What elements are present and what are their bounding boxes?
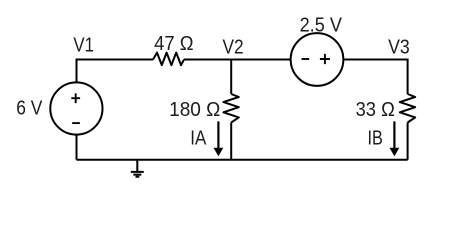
2.5V source plus sign: [320, 54, 330, 64]
svg-text:6 V: 6 V: [16, 98, 43, 120]
current arrow IA head: [214, 148, 224, 156]
svg-text:180 Ω: 180 Ω: [169, 99, 220, 121]
svg-text:V2: V2: [223, 36, 244, 58]
voltage source 2.5 V circle: [291, 33, 344, 86]
6V source plus sign: [71, 93, 80, 103]
svg-text:V3: V3: [388, 37, 410, 59]
wire top-right: 2.5V source to V3 corner and down to 33ohm: [343, 60, 407, 95]
svg-text:47 Ω: 47 Ω: [154, 33, 193, 55]
voltage source 6 V circle: [50, 82, 102, 134]
resistor 180 ohm zigzag: [223, 94, 238, 123]
wire left-bottom: 6V source to bottom rail: [76, 135, 78, 160]
current arrow IB head: [390, 148, 400, 156]
2.5V source minus sign: [302, 58, 310, 60]
6V source minus sign: [72, 122, 80, 124]
wire top-middle: 47ohm to 2.5V source: [184, 59, 291, 61]
svg-text:IB: IB: [368, 128, 383, 150]
wire bottom rail: [77, 159, 408, 161]
wire V2 branch top: [230, 60, 232, 95]
current arrow IB shaft: [393, 121, 395, 149]
svg-text:2.5 V: 2.5 V: [300, 14, 343, 36]
svg-text:IA: IA: [190, 128, 207, 150]
ground symbol: [131, 160, 144, 177]
current arrow IA shaft: [217, 121, 219, 149]
resistor 47 ohm zigzag: [153, 53, 184, 66]
svg-text:33 Ω: 33 Ω: [356, 99, 395, 121]
wire right-bottom: 33ohm down to bottom rail: [407, 123, 409, 160]
wire top-left: from 6V source top up and right to 47ohm: [77, 60, 154, 84]
resistor 33 ohm zigzag: [400, 94, 415, 123]
wire V2 branch bottom: [230, 123, 232, 160]
svg-text:V1: V1: [73, 34, 94, 56]
